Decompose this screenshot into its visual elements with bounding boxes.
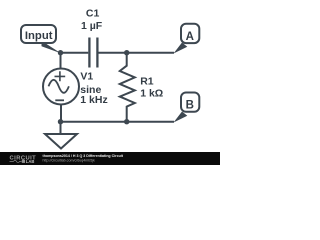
svg-text:http://circuitlab.com/c/6uq4mb: http://circuitlab.com/c/6uq4mb5jk bbox=[43, 158, 96, 162]
svg-text:1 µF: 1 µF bbox=[81, 20, 103, 32]
svg-text:C1: C1 bbox=[86, 8, 100, 20]
svg-text:A: A bbox=[186, 31, 194, 43]
svg-text:LAB: LAB bbox=[26, 159, 35, 164]
svg-text:1 kΩ: 1 kΩ bbox=[140, 87, 163, 99]
svg-text:1 kHz: 1 kHz bbox=[80, 94, 107, 106]
svg-text:V1: V1 bbox=[80, 71, 93, 83]
svg-text:R1: R1 bbox=[140, 75, 154, 87]
svg-text:thompsons2014 / H 3 Q 3 Differ: thompsons2014 / H 3 Q 3 Differentiating … bbox=[43, 154, 124, 158]
svg-text:B: B bbox=[186, 99, 194, 111]
svg-text:Input: Input bbox=[25, 30, 53, 42]
